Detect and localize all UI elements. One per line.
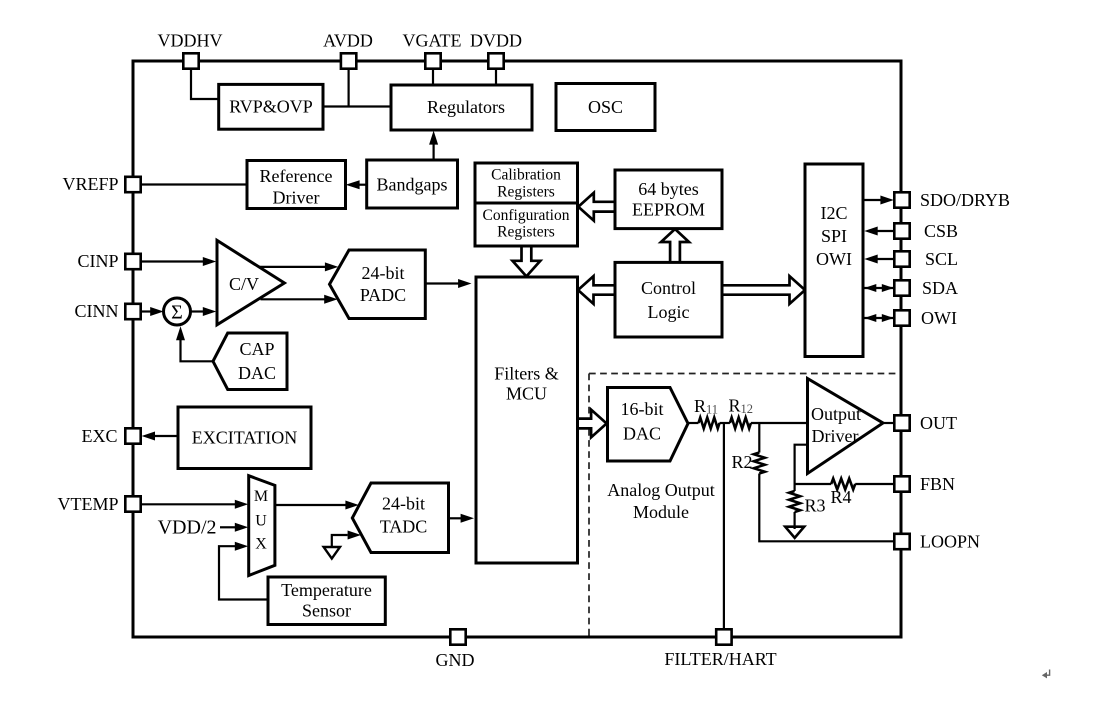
svg-text:CINN: CINN bbox=[75, 301, 119, 321]
svg-text:OWI: OWI bbox=[816, 249, 852, 269]
wire junction down to R3 bbox=[793, 484, 795, 491]
pin FBN bbox=[894, 474, 955, 494]
wire DVDD down bbox=[495, 69, 497, 85]
wire AVDD down bbox=[348, 69, 350, 107]
svg-text:64 bytes: 64 bytes bbox=[638, 179, 699, 199]
pin GND bbox=[436, 629, 475, 670]
dashed box Analog Output Module bbox=[589, 374, 900, 636]
wire junction down to R2 bbox=[758, 423, 760, 453]
wire C/V upper output to PADC bbox=[260, 262, 339, 271]
pin CSB bbox=[894, 221, 958, 241]
arrow EXCITATION to EXC pin bbox=[142, 432, 178, 441]
block 16-bit DAC bbox=[608, 388, 689, 462]
svg-text:Filters &: Filters & bbox=[494, 364, 559, 384]
wire RVP&OVP to Regulators bbox=[323, 105, 391, 107]
svg-text:OWI: OWI bbox=[921, 308, 957, 328]
svg-text:EEPROM: EEPROM bbox=[632, 200, 705, 220]
resistor R3 bbox=[789, 491, 800, 512]
label Analog Output Module bbox=[607, 480, 715, 522]
svg-text:CINP: CINP bbox=[77, 251, 118, 271]
svg-text:Output: Output bbox=[811, 404, 861, 424]
svg-text:Logic: Logic bbox=[648, 302, 690, 322]
svg-text:PADC: PADC bbox=[360, 285, 406, 305]
svg-text:Driver: Driver bbox=[273, 188, 320, 208]
block Reference Driver bbox=[247, 161, 346, 209]
svg-text:VDD/2: VDD/2 bbox=[158, 517, 217, 539]
ground symbol below R3 bbox=[785, 527, 804, 538]
block Calibration/Configuration Registers bbox=[475, 163, 578, 246]
svg-text:SDO/DRYB: SDO/DRYB bbox=[920, 190, 1010, 210]
wire R11 to R12 bbox=[720, 422, 730, 424]
wire R3 to ground bbox=[793, 512, 795, 529]
block I2C SPI OWI bbox=[805, 164, 863, 357]
mux MUX bbox=[249, 476, 275, 576]
pin DVDD bbox=[470, 31, 522, 69]
svg-text:16-bit: 16-bit bbox=[621, 399, 664, 419]
svg-text:CSB: CSB bbox=[924, 221, 958, 241]
svg-text:VREFP: VREFP bbox=[62, 174, 118, 194]
wire CSB to I2C bbox=[864, 227, 894, 236]
arrow CINN to sigma bbox=[141, 307, 164, 316]
op-amp Output Driver bbox=[808, 379, 884, 474]
svg-text:Analog Output: Analog Output bbox=[607, 480, 715, 500]
svg-text:TADC: TADC bbox=[380, 517, 428, 537]
svg-text:MCU: MCU bbox=[506, 384, 547, 404]
svg-text:M: M bbox=[254, 488, 268, 505]
block 24-bit TADC bbox=[352, 483, 448, 553]
pin VTEMP bbox=[57, 494, 140, 514]
summing node sigma bbox=[164, 298, 191, 325]
arrow Bandgaps to Regulators bbox=[429, 131, 438, 160]
resistor R4 bbox=[831, 479, 855, 490]
svg-text:FBN: FBN bbox=[920, 474, 955, 494]
svg-text:24-bit: 24-bit bbox=[362, 263, 405, 283]
svg-text:U: U bbox=[255, 513, 267, 530]
arrow MUX to TADC bbox=[275, 501, 359, 510]
svg-text:Registers: Registers bbox=[497, 224, 555, 241]
svg-text:R4: R4 bbox=[831, 487, 852, 507]
block OSC bbox=[556, 84, 655, 131]
svg-text:EXC: EXC bbox=[82, 426, 118, 446]
svg-text:GND: GND bbox=[436, 650, 475, 670]
wire 16-bit DAC to R11 bbox=[688, 422, 699, 424]
svg-text:AVDD: AVDD bbox=[323, 31, 373, 51]
block RVP&OVP bbox=[219, 84, 323, 129]
wire SDA to I2C both ways bbox=[864, 284, 894, 292]
wire I2C to SDO/DRYB bbox=[863, 196, 894, 205]
block EXCITATION bbox=[178, 407, 311, 469]
resistor R11 bbox=[699, 418, 720, 429]
svg-text:OSC: OSC bbox=[588, 97, 623, 117]
svg-text:Σ: Σ bbox=[171, 302, 183, 324]
svg-text:VGATE: VGATE bbox=[403, 31, 462, 51]
arrow sigma to C/V bbox=[191, 307, 217, 316]
svg-text:SCL: SCL bbox=[925, 249, 958, 269]
pin EXC bbox=[82, 426, 141, 446]
svg-text:C/V: C/V bbox=[229, 274, 259, 294]
wire C/V lower output to PADC bbox=[261, 295, 338, 304]
svg-text:CAP: CAP bbox=[239, 339, 274, 359]
arrow CAP DAC to sigma bbox=[176, 326, 213, 361]
block CAP DAC bbox=[213, 333, 287, 390]
return mark bbox=[1042, 670, 1050, 679]
arrow TADC to Filters bbox=[449, 514, 475, 523]
hollow arrow Registers to Filters bbox=[513, 246, 541, 276]
pin SDO/DRYB bbox=[894, 190, 1010, 210]
svg-text:LOOPN: LOOPN bbox=[920, 532, 980, 552]
block Filters & MCU bbox=[476, 277, 578, 563]
wire feedback to Output Driver input bbox=[795, 445, 808, 484]
svg-text:SPI: SPI bbox=[821, 226, 847, 246]
arrow VTEMP to MUX bbox=[141, 500, 249, 509]
wire VDDHV to RVP&OVP bbox=[191, 69, 219, 99]
wire Output Driver to OUT bbox=[883, 422, 894, 424]
svg-text:VTEMP: VTEMP bbox=[57, 494, 118, 514]
block 24-bit PADC bbox=[330, 250, 426, 319]
svg-text:DAC: DAC bbox=[623, 424, 661, 444]
svg-text:DVDD: DVDD bbox=[470, 31, 522, 51]
pin CINN bbox=[75, 301, 141, 321]
ground symbol at TADC input bbox=[324, 531, 361, 559]
pin CINP bbox=[77, 251, 140, 271]
hollow arrow Control Logic to EEPROM bbox=[661, 229, 689, 262]
wire VGATE down bbox=[432, 69, 434, 85]
svg-text:X: X bbox=[255, 536, 267, 553]
arrow VDD/2 to MUX bbox=[220, 523, 248, 532]
svg-text:FILTER/HART: FILTER/HART bbox=[664, 649, 776, 669]
svg-text:24-bit: 24-bit bbox=[382, 494, 425, 514]
svg-text:Configuration: Configuration bbox=[483, 207, 570, 224]
svg-text:SDA: SDA bbox=[922, 278, 958, 298]
svg-text:I2C: I2C bbox=[821, 203, 848, 223]
wire OWI to I2C both ways bbox=[864, 314, 894, 322]
hollow arrow Control Logic to Filters bbox=[578, 276, 615, 304]
svg-text:Sensor: Sensor bbox=[302, 601, 351, 621]
svg-text:Control: Control bbox=[641, 278, 696, 298]
op-amp C/V bbox=[217, 240, 284, 324]
pin LOOPN bbox=[894, 532, 980, 552]
svg-text:Bandgaps: Bandgaps bbox=[377, 175, 448, 195]
svg-text:EXCITATION: EXCITATION bbox=[192, 428, 298, 448]
svg-text:Module: Module bbox=[633, 502, 689, 522]
wire FBN to R4 bbox=[855, 483, 894, 485]
wire junction to FILTER/HART pin bbox=[723, 423, 725, 629]
svg-text:Calibration: Calibration bbox=[491, 167, 561, 184]
arrow CINP to C/V bbox=[141, 257, 217, 266]
chip outline bbox=[133, 61, 901, 637]
block Control Logic bbox=[615, 262, 722, 337]
pin OUT bbox=[894, 413, 957, 433]
wire SCL to I2C bbox=[864, 255, 894, 264]
pin VDDHV bbox=[158, 31, 223, 69]
block Regulators bbox=[391, 85, 532, 130]
wire R12 to Output Driver bbox=[751, 422, 808, 424]
svg-text:R3: R3 bbox=[805, 496, 826, 516]
pin SDA bbox=[894, 278, 958, 298]
svg-text:OUT: OUT bbox=[920, 413, 957, 433]
svg-text:Reference: Reference bbox=[260, 166, 333, 186]
wire R4 to junction bbox=[795, 483, 832, 485]
pin VGATE bbox=[403, 31, 462, 69]
svg-text:Registers: Registers bbox=[497, 184, 555, 201]
wire R2 to LOOPN bbox=[759, 474, 894, 542]
svg-text:VDDHV: VDDHV bbox=[158, 31, 223, 51]
pin VREFP bbox=[62, 174, 140, 194]
pin OWI bbox=[894, 308, 957, 328]
hollow arrow Filters to 16-bit DAC bbox=[578, 410, 607, 438]
svg-text:RVP&OVP: RVP&OVP bbox=[229, 97, 313, 117]
arrow PADC to Filters bbox=[425, 279, 471, 288]
hollow arrow EEPROM to Registers bbox=[578, 193, 615, 221]
wire Temperature Sensor to MUX bbox=[219, 542, 268, 600]
svg-text:Driver: Driver bbox=[812, 426, 859, 446]
resistor R12 bbox=[730, 418, 751, 429]
block Temperature Sensor bbox=[268, 577, 385, 625]
svg-text:Regulators: Regulators bbox=[427, 97, 505, 117]
svg-text:Temperature: Temperature bbox=[281, 580, 372, 600]
wire VREFP to Reference Driver bbox=[141, 183, 247, 185]
arrow Bandgaps to Reference Driver bbox=[346, 180, 367, 189]
pin SCL bbox=[894, 249, 958, 269]
block Bandgaps bbox=[367, 160, 458, 208]
pin AVDD bbox=[323, 31, 373, 69]
svg-text:DAC: DAC bbox=[238, 363, 276, 383]
resistor R2 bbox=[754, 453, 765, 474]
hollow arrow Control Logic to I2C bbox=[722, 276, 805, 304]
pin FILTER/HART bbox=[664, 629, 776, 669]
block 64 bytes EEPROM bbox=[615, 170, 722, 229]
svg-text:R2: R2 bbox=[732, 452, 753, 472]
